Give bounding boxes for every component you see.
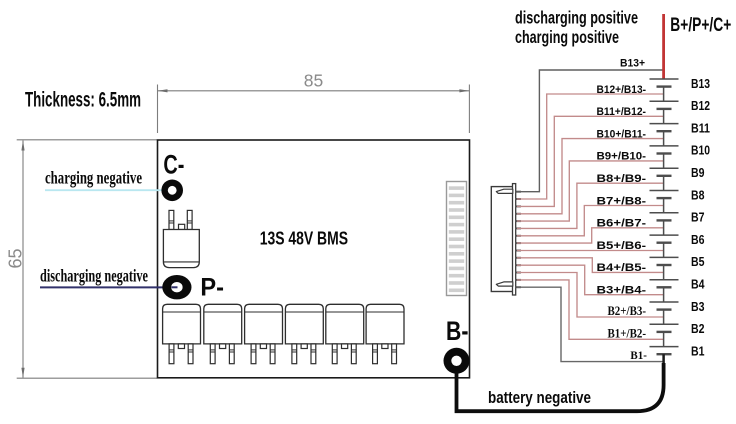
wire B5+/B6- bbox=[517, 250, 664, 252]
inter-cell link B7/B6 bbox=[663, 220, 665, 235]
inter-cell link B13/B12 bbox=[663, 87, 665, 102]
svg-text:B9+/B10-: B9+/B10- bbox=[597, 151, 647, 163]
connector J2 bottom latch tab bbox=[496, 282, 513, 286]
svg-text:B1: B1 bbox=[691, 344, 705, 358]
svg-text:B3: B3 bbox=[691, 300, 705, 314]
inter-cell link B4/B3 bbox=[663, 287, 665, 302]
wire B2+/B3- bbox=[517, 273, 664, 318]
MOSFET package Q6 bbox=[326, 304, 364, 344]
svg-text:B-: B- bbox=[446, 316, 468, 346]
svg-text:B12+/B13-: B12+/B13- bbox=[597, 84, 647, 96]
svg-text:charging positive: charging positive bbox=[515, 27, 619, 47]
battery cell B13 bbox=[650, 79, 679, 87]
wire charging negative (cyan) bbox=[45, 189, 168, 191]
transistor Q1 body bbox=[163, 230, 199, 268]
svg-text:C-: C- bbox=[163, 149, 184, 179]
svg-text:B6: B6 bbox=[691, 233, 705, 247]
battery cell B3 bbox=[650, 302, 679, 310]
svg-text:B7: B7 bbox=[691, 211, 705, 225]
svg-text:B5: B5 bbox=[691, 255, 705, 269]
dimension 65 (left height) bbox=[17, 140, 157, 378]
MOSFET package Q4 bbox=[245, 304, 283, 344]
svg-text:discharging negative: discharging negative bbox=[40, 265, 148, 285]
battery cell B12 bbox=[650, 101, 679, 109]
svg-text:65: 65 bbox=[6, 248, 26, 268]
wire tip inside P- hole bbox=[172, 286, 178, 288]
wire B6+/B7- bbox=[517, 228, 664, 243]
wire battery negative (thick black) bbox=[457, 363, 664, 411]
svg-text:85: 85 bbox=[304, 71, 323, 91]
wire B13+ (gray) bbox=[517, 70, 664, 192]
battery cell B10 bbox=[650, 146, 679, 154]
wire-harness connector J2 body bbox=[491, 187, 513, 292]
svg-text:Thickness: 6.5mm: Thickness: 6.5mm bbox=[25, 89, 141, 112]
wire discharging negative (navy) bbox=[40, 286, 177, 288]
battery stack bottom stub bbox=[662, 354, 665, 365]
connector J2 flange bbox=[513, 184, 516, 295]
svg-text:B4+/B5-: B4+/B5- bbox=[597, 262, 647, 274]
connector J2 top latch tab bbox=[496, 189, 513, 193]
svg-text:B10: B10 bbox=[691, 144, 710, 158]
dimension 85 (top width) bbox=[158, 85, 470, 134]
battery cell B6 bbox=[650, 235, 679, 243]
terminal ring P- bbox=[162, 275, 191, 299]
svg-text:B8: B8 bbox=[691, 188, 705, 202]
battery cell B5 bbox=[650, 257, 679, 265]
battery cell B1 bbox=[650, 347, 679, 355]
wire B1- (gray) bbox=[517, 287, 664, 361]
wire B10+/B11- bbox=[517, 139, 664, 214]
battery cell B9 bbox=[650, 168, 679, 176]
svg-text:B2: B2 bbox=[691, 322, 705, 336]
svg-text:battery negative: battery negative bbox=[488, 388, 591, 407]
svg-text:B10+/B11-: B10+/B11- bbox=[597, 128, 647, 140]
wire B8+/B9- bbox=[517, 183, 664, 228]
wire B1+/B2- bbox=[517, 280, 664, 339]
wire B9+/B10- bbox=[517, 161, 664, 221]
svg-text:B11+/B12-: B11+/B12- bbox=[597, 106, 647, 118]
inter-cell link B8/B7 bbox=[663, 198, 665, 213]
wire B11+/B12- bbox=[517, 116, 664, 206]
svg-text:B13: B13 bbox=[691, 77, 710, 91]
svg-text:B4: B4 bbox=[691, 278, 705, 292]
wire B+ main positive (red) bbox=[662, 14, 665, 79]
svg-text:B2+/B3-: B2+/B3- bbox=[608, 304, 647, 318]
svg-text:charging negative: charging negative bbox=[45, 167, 142, 187]
wire B4+/B5- bbox=[517, 258, 664, 273]
svg-text:B13+: B13+ bbox=[620, 58, 645, 70]
MOSFET package Q7 bbox=[366, 304, 404, 344]
wire B3+/B4- bbox=[517, 265, 664, 295]
connector pin stubs bbox=[516, 192, 522, 288]
board connector J1 (striped) bbox=[447, 182, 467, 296]
svg-text:B6+/B7-: B6+/B7- bbox=[597, 218, 647, 230]
svg-text:B12: B12 bbox=[691, 99, 710, 113]
transistor Q1 (top legs) bbox=[169, 210, 192, 229]
svg-text:P-: P- bbox=[200, 274, 224, 302]
battery cell B4 bbox=[650, 280, 679, 288]
svg-text:B5+/B6-: B5+/B6- bbox=[597, 240, 647, 252]
wire B12+/B13- bbox=[517, 94, 664, 199]
svg-text:13S 48V BMS: 13S 48V BMS bbox=[260, 228, 348, 249]
inter-cell link B11/B10 bbox=[663, 131, 665, 146]
svg-text:discharging positive: discharging positive bbox=[515, 7, 638, 27]
MOSFET package Q2 bbox=[163, 304, 201, 344]
svg-text:B+/P+/C+: B+/P+/C+ bbox=[670, 14, 731, 36]
svg-text:B9: B9 bbox=[691, 166, 705, 180]
battery cell B11 bbox=[650, 124, 679, 132]
inter-cell link B10/B9 bbox=[663, 154, 665, 169]
terminal ring C- bbox=[161, 180, 183, 202]
inter-cell link B12/B11 bbox=[663, 109, 665, 124]
inter-cell link B6/B5 bbox=[663, 243, 665, 258]
terminal ring B- bbox=[444, 348, 470, 374]
MOSFET package Q5 bbox=[285, 304, 323, 344]
svg-text:B3+/B4-: B3+/B4- bbox=[597, 285, 647, 297]
wire B7+/B8- bbox=[517, 206, 664, 236]
svg-text:B7+/B8-: B7+/B8- bbox=[597, 195, 647, 207]
inter-cell link B2/B1 bbox=[663, 332, 665, 347]
inter-cell link B3/B2 bbox=[663, 310, 665, 325]
svg-text:B11: B11 bbox=[691, 121, 710, 135]
inter-cell link B5/B4 bbox=[663, 265, 665, 280]
MOSFET package Q3 bbox=[204, 304, 242, 344]
svg-text:B1-: B1- bbox=[630, 348, 647, 362]
svg-text:B1+/B2-: B1+/B2- bbox=[608, 326, 647, 340]
battery cell B2 bbox=[650, 324, 679, 332]
inter-cell link B9/B8 bbox=[663, 176, 665, 191]
BMS board outline bbox=[158, 140, 470, 378]
svg-text:B8+/B9-: B8+/B9- bbox=[597, 173, 647, 185]
battery cell B8 bbox=[650, 191, 679, 199]
battery cell B7 bbox=[650, 213, 679, 221]
